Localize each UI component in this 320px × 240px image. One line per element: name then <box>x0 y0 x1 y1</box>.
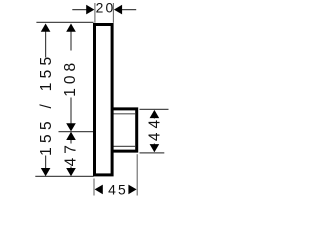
svg-text:45: 45 <box>108 182 128 198</box>
dimension line 47 <box>70 140 72 144</box>
arrow up 47 top (bowtie bottom) <box>66 132 76 140</box>
extension line 20-right vertical <box>112 3 114 23</box>
arrow left 45 <box>95 185 103 195</box>
dimension line 44 <box>153 111 155 119</box>
protrusion inner line bottom <box>114 145 136 147</box>
extension line 20-left vertical <box>94 3 96 23</box>
arrow down 108 bottom (bowtie top) <box>66 123 76 131</box>
extension line middle-left (108/47 boundary) <box>59 131 94 133</box>
arrow down 47 bottom <box>66 168 76 176</box>
extension line bottom-left (155/47 bottom, at plate bottom face) <box>35 175 93 177</box>
svg-text:155 / 155: 155 / 155 <box>38 53 55 156</box>
arrow down 155 bottom <box>41 168 51 176</box>
arrow down 44 bottom <box>150 144 160 152</box>
svg-text:108: 108 <box>62 59 79 97</box>
extension line 44-top <box>140 108 169 110</box>
dimension line 20 left tail <box>72 9 88 11</box>
arrow left 20 <box>114 5 122 15</box>
arrow up 44 top <box>150 110 160 118</box>
arrow up 108 top <box>66 24 76 32</box>
extension line top-left (155/108 top, at plate top face) <box>36 21 93 23</box>
arrow right 20 <box>86 5 94 15</box>
arrow up 155 top <box>41 24 51 32</box>
protrusion inner line top <box>114 113 136 115</box>
arrow right 45 <box>128 185 136 195</box>
dimension line 155/155 <box>45 26 47 58</box>
protrusion (cartridge housing side view) <box>112 109 137 151</box>
svg-text:20: 20 <box>96 0 116 16</box>
dimension line 20 right tail <box>120 9 137 11</box>
extension line 45-right vertical <box>136 154 138 195</box>
extension line 45-left vertical <box>93 179 95 196</box>
plate (wall plate side view) <box>95 25 113 175</box>
extension line 44-bottom <box>140 152 165 154</box>
svg-text:44: 44 <box>147 116 164 141</box>
svg-text:47: 47 <box>62 141 79 166</box>
dimension line 108 <box>70 26 72 51</box>
